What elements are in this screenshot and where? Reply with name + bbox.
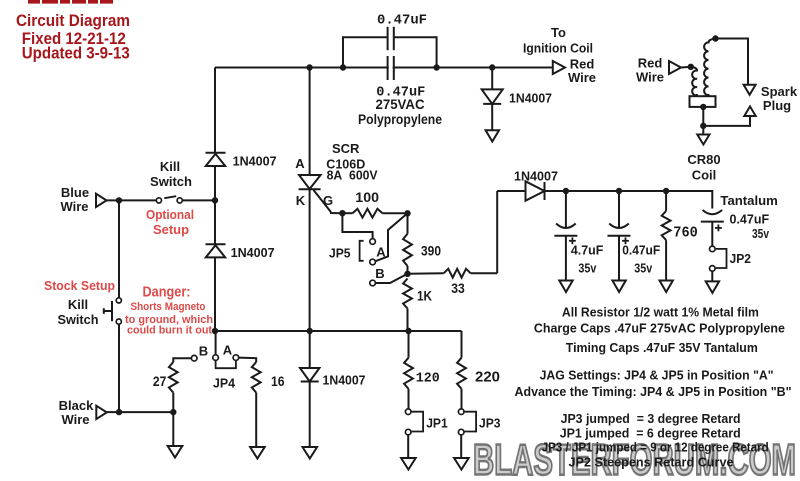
label C3 voltage: [578, 260, 597, 275]
jumper JP3 bracket: [465, 412, 477, 432]
jumper JP1 pin top: [405, 409, 411, 415]
wire D4 to ground: [309, 382, 311, 448]
wire spark plug return: [703, 116, 750, 126]
label JP5: [329, 245, 351, 260]
svg-text:Circuit Diagram: Circuit Diagram: [16, 11, 130, 30]
svg-text:1N4007: 1N4007: [514, 168, 558, 183]
label C1 0.47uF: [377, 13, 427, 29]
jumper JP5 pin common: [370, 239, 376, 245]
wire JP5 B to junction: [375, 274, 407, 283]
note line 1: [562, 305, 759, 320]
label 27: [153, 373, 167, 389]
diode D5 1N4007: [526, 181, 545, 200]
svg-text:Shorts Magneto: Shorts Magneto: [131, 301, 206, 313]
svg-text:100: 100: [355, 189, 379, 205]
svg-text:JP1 jumped = 6 degree Retard: JP1 jumped = 6 degree Retard: [560, 426, 741, 441]
resistor 100: [342, 209, 407, 218]
svg-text:16: 16: [271, 373, 285, 389]
node snubber diode tap: [489, 64, 495, 70]
svg-text:Kill: Kill: [68, 297, 88, 312]
svg-text:35v: 35v: [578, 260, 597, 275]
svg-text:0.47uF: 0.47uF: [622, 243, 660, 258]
label 120: [416, 371, 440, 387]
label D5 1N4007: [514, 168, 558, 183]
svg-text:To: To: [551, 25, 566, 40]
svg-text:1N4007: 1N4007: [231, 245, 275, 260]
label C2 voltage: [376, 97, 425, 112]
wire core to junction: [702, 107, 704, 126]
label Switch (stock): [58, 312, 99, 327]
svg-text:JP2: JP2: [730, 251, 752, 266]
label Wire (coil input): [636, 69, 664, 84]
note line 3: [566, 340, 758, 355]
note line 5: [515, 384, 792, 399]
svg-text:220: 220: [475, 369, 500, 386]
wire 33 up to charge bus: [496, 191, 498, 273]
svg-text:390: 390: [421, 242, 441, 258]
label Plug: [763, 98, 791, 113]
ground below coil: [697, 135, 709, 145]
ground below 760: [660, 281, 673, 293]
title line 3: [22, 43, 130, 62]
label B (JP4): [199, 343, 208, 358]
label 100: [355, 189, 379, 205]
label Switch (upper): [150, 174, 192, 189]
watermark BlasterForum.com: [473, 436, 796, 481]
label C106D: [326, 156, 365, 171]
plus C3: [569, 237, 576, 244]
wire coil to ground: [702, 126, 704, 135]
wire left drop from top bus to diode rail: [214, 68, 216, 154]
svg-text:JP4: JP4: [213, 376, 236, 391]
wire gap at C2: [389, 65, 393, 70]
label 390: [421, 242, 441, 258]
svg-text:Advance the Timing: JP4 & JP5: Advance the Timing: JP4 & JP5 in Positio…: [515, 384, 792, 399]
wire charge bus right: [545, 191, 713, 209]
wire bottom bus: [215, 330, 462, 332]
jumper JP4 pin B: [191, 355, 197, 361]
wire bus to C4: [618, 191, 620, 228]
svg-text:Wire: Wire: [60, 199, 88, 214]
wire primary to core box: [696, 94, 698, 96]
node bus at SCR cathode: [307, 328, 313, 334]
connector blue wire: [96, 194, 107, 207]
label danger text 1: [131, 301, 206, 313]
wire blue to switch: [107, 199, 157, 201]
wire top bus: [215, 67, 553, 69]
node bus at JP4 drop: [212, 328, 218, 334]
connector red wire to coil: [669, 61, 681, 74]
svg-text:Optional: Optional: [146, 207, 194, 222]
svg-text:Red: Red: [638, 55, 663, 70]
svg-text:All Resistor 1/2 watt 1% Metal: All Resistor 1/2 watt 1% Metal film: [562, 305, 759, 320]
inductor primary winding: [691, 67, 697, 96]
wire gate to JP5 common: [342, 213, 372, 238]
resistor 27: [169, 362, 178, 412]
wire connector to primary: [681, 66, 692, 69]
svg-text:760: 760: [673, 225, 698, 242]
svg-text:1N4007: 1N4007: [233, 154, 277, 169]
label C2 value: [376, 84, 425, 100]
capacitor C2 0.47uF 275VAC (on bus): [388, 56, 394, 80]
jumper JP1 bracket: [412, 412, 424, 432]
resistor 120: [404, 358, 413, 409]
label Wire: [568, 70, 596, 85]
label 220: [475, 369, 500, 386]
plus C5: [715, 225, 722, 232]
label Kill (upper): [160, 159, 180, 174]
title line 1: [16, 11, 130, 30]
label To: [551, 25, 566, 40]
svg-text:could burn it out.: could burn it out.: [127, 325, 215, 337]
label Wire (black): [61, 412, 89, 427]
wire C4 to ground: [618, 236, 620, 281]
node spark return junction: [700, 123, 706, 129]
label C5 voltage: [752, 226, 770, 241]
label Optional: [146, 207, 194, 222]
resistor 33: [408, 269, 498, 278]
connector black wire: [96, 406, 107, 419]
ground below C4: [612, 281, 625, 293]
jumper JP3 pin bottom: [458, 429, 464, 435]
label Blue: [61, 185, 89, 200]
label danger text 2: [125, 314, 213, 326]
wire bus to JP4 common: [215, 331, 217, 355]
ground below D4: [303, 447, 318, 459]
ground below JP1: [401, 458, 416, 470]
label C5 value: [730, 212, 770, 227]
label Spark: [761, 84, 798, 99]
svg-text:K: K: [296, 193, 306, 208]
svg-text:Wire: Wire: [636, 69, 664, 84]
svg-text:A: A: [295, 156, 305, 171]
svg-text:4.7uF: 4.7uF: [571, 243, 604, 258]
wire D3 anode: [491, 68, 493, 90]
jumper JP5 pin A: [370, 259, 376, 265]
label 1K: [417, 288, 432, 304]
node cap loop right: [433, 64, 439, 70]
ground below JP3: [454, 458, 469, 470]
label Coil: [692, 168, 717, 183]
transformer core box: [690, 96, 716, 107]
wire JP5 A to node: [375, 213, 407, 261]
resistor 16: [252, 362, 261, 447]
wire D1 to node: [214, 166, 216, 200]
label D4 1N4007: [323, 372, 366, 387]
svg-text:Stock Setup: Stock Setup: [44, 278, 115, 293]
node black wire at rail: [116, 409, 122, 415]
wire JP4 B to 27: [173, 358, 191, 362]
svg-text:0.47uF: 0.47uF: [377, 13, 427, 29]
wire JP3 to ground: [460, 435, 462, 458]
label Red: [570, 57, 595, 72]
svg-text:Danger:: Danger:: [143, 285, 191, 301]
node secondary top: [712, 35, 718, 41]
jumper JP2 pin top: [710, 246, 716, 252]
wire D2 to bottom bus: [214, 258, 216, 331]
label A (JP5): [376, 245, 386, 260]
capacitor C1 0.47uF (upper): [388, 27, 394, 50]
SCR gate lead: [314, 190, 343, 213]
wire node to D2: [214, 200, 216, 244]
svg-text:JP5: JP5: [329, 245, 351, 260]
svg-text:1N4007: 1N4007: [323, 372, 366, 387]
SCR U1 C106D: [299, 175, 321, 189]
label Stock Setup: [44, 278, 115, 293]
node cap loop left: [340, 64, 346, 70]
diode D3 1N4007: [482, 89, 503, 104]
label Red (coil input): [638, 55, 663, 70]
inductor secondary winding: [704, 39, 715, 96]
note line 2: [534, 321, 785, 336]
svg-text:Wire: Wire: [61, 412, 89, 427]
title line 2: [22, 29, 126, 48]
label C3 value: [571, 243, 604, 258]
svg-text:SCR: SCR: [332, 141, 360, 156]
label Kill (stock): [68, 297, 88, 312]
label D2 1N4007: [231, 245, 275, 260]
svg-text:0.47uF: 0.47uF: [730, 212, 770, 227]
node kill rail: [212, 197, 218, 203]
jumper JP4 pin A: [233, 355, 239, 361]
connector spark plug (top): [744, 85, 756, 95]
resistor 760: [662, 191, 671, 281]
wire charge bus left: [497, 190, 525, 192]
wire blue node down to push button: [118, 200, 120, 297]
svg-text:Black: Black: [59, 398, 94, 413]
jumper JP5 bracket: [360, 241, 364, 261]
node core box bottom: [700, 104, 706, 110]
svg-text:Timing Caps .47uF 35V Tantalum: Timing Caps .47uF 35V Tantalum: [566, 340, 758, 355]
jumper JP4 pin common: [213, 355, 219, 361]
wire bus corner to 220: [461, 331, 463, 358]
svg-text:Ignition Coil: Ignition Coil: [523, 41, 593, 56]
wire black wire line: [107, 411, 174, 413]
resistor 220: [457, 358, 466, 409]
jumper JP2 bracket: [716, 249, 727, 268]
wire D3 to ground: [491, 104, 493, 130]
label G (SCR gate): [323, 193, 333, 208]
wire SCR anode: [309, 68, 311, 176]
node gate: [339, 210, 345, 216]
node bus at C4: [616, 188, 622, 194]
node black wire at 27: [170, 409, 176, 415]
diode D1 1N4007: [206, 153, 226, 166]
diode D2 1N4007: [206, 244, 226, 257]
svg-text:B: B: [199, 343, 208, 358]
node blue wire: [116, 197, 122, 203]
wire SCR cathode to bus: [309, 189, 311, 331]
svg-text:120: 120: [416, 371, 440, 387]
svg-text:Kill: Kill: [160, 159, 180, 174]
jumper JP2 pin bottom: [710, 266, 716, 272]
jumper JP4 bracket: [216, 361, 236, 368]
ground below D3: [486, 130, 499, 141]
svg-text:35v: 35v: [634, 260, 653, 275]
note line 8: [542, 440, 769, 455]
label A (JP4): [223, 343, 233, 358]
label 760: [673, 225, 698, 242]
svg-text:Tantalum: Tantalum: [720, 193, 778, 208]
svg-text:A: A: [223, 343, 233, 358]
label C4 voltage: [634, 260, 653, 275]
diode D4 1N4007: [300, 368, 320, 382]
label JP3: [479, 415, 501, 430]
label Danger:: [143, 285, 191, 301]
label Black: [59, 398, 94, 413]
svg-text:Polypropylene: Polypropylene: [358, 112, 442, 127]
label D3 1N4007: [509, 91, 552, 106]
wire JP1 to ground: [407, 435, 409, 458]
wire capacitor loop: [343, 37, 437, 67]
label 33: [451, 280, 465, 296]
label SCR: [332, 141, 360, 156]
wire C5 to JP2: [711, 222, 713, 247]
note line 7: [560, 426, 741, 441]
svg-text:275VAC: 275VAC: [376, 97, 425, 112]
svg-text:Switch: Switch: [58, 312, 99, 327]
switch S2 kill (stock, push button): [104, 298, 122, 324]
jumper JP1 pin bottom: [405, 429, 411, 435]
svg-text:27: 27: [153, 373, 167, 389]
label K (SCR cathode): [296, 193, 306, 208]
label Ignition Coil: [523, 41, 593, 56]
cropped text sliver at top edge: [28, 0, 113, 4]
label Wire (blue): [60, 199, 88, 214]
ground below black wire: [168, 446, 183, 458]
label A (SCR anode): [295, 156, 305, 171]
connector to ignition coil: [553, 61, 565, 74]
note line 9: [569, 455, 734, 470]
wire bus to 120: [408, 331, 410, 358]
svg-text:35v: 35v: [752, 226, 770, 241]
svg-text:CR80: CR80: [687, 152, 720, 167]
connector spark plug (bottom): [744, 106, 755, 116]
capacitor C3 4.7uF 35v: [554, 224, 577, 236]
wire JP2 to ground: [711, 271, 713, 281]
note line 4: [540, 368, 774, 383]
node bus at 760: [663, 188, 669, 194]
svg-text:Spark: Spark: [761, 84, 798, 99]
svg-text:Plug: Plug: [763, 98, 791, 113]
label danger text 3: [127, 325, 215, 337]
resistor 390: [403, 213, 412, 273]
svg-text:G: G: [323, 193, 333, 208]
svg-text:33: 33: [451, 280, 465, 296]
svg-text:B: B: [375, 266, 384, 281]
svg-text:Switch: Switch: [150, 174, 192, 189]
svg-text:Wire: Wire: [568, 70, 596, 85]
node bus at C3: [563, 188, 569, 194]
svg-text:1N4007: 1N4007: [509, 91, 552, 106]
svg-text:Charge Caps .47uF 275vAC Polyp: Charge Caps .47uF 275vAC Polypropylene: [534, 321, 785, 336]
svg-text:JP3 / JP1 jumped = 9 or 12 deg: JP3 / JP1 jumped = 9 or 12 degree Retard: [542, 440, 769, 455]
wire secondary top: [716, 39, 749, 85]
jumper JP3 pin top: [458, 409, 464, 415]
svg-text:Updated 3-9-13: Updated 3-9-13: [22, 43, 130, 62]
label Setup (optional): [153, 222, 189, 237]
label Tantalum: [720, 193, 778, 208]
label 8A 600V: [327, 168, 378, 183]
wire 27 junction to ground: [172, 412, 174, 446]
ground below 16: [250, 447, 265, 459]
note line 6: [561, 411, 741, 426]
switch S1 kill (optional): [156, 196, 182, 203]
node primary top: [688, 64, 694, 70]
label 16: [271, 373, 285, 389]
wire secondary to core box: [708, 94, 710, 96]
label JP2: [730, 251, 752, 266]
svg-text:JP3: JP3: [479, 415, 501, 430]
svg-text:Coil: Coil: [692, 168, 717, 183]
svg-text:1K: 1K: [417, 288, 432, 304]
label C4 value: [622, 243, 660, 258]
wire push button to black wire: [118, 324, 120, 412]
node top-left of SCR: [306, 64, 312, 70]
node top of 390: [404, 210, 410, 216]
capacitor C4 0.47uF 35v: [608, 224, 631, 236]
jumper JP5 pin B: [370, 280, 376, 286]
node 390-1K junction: [404, 271, 410, 277]
svg-text:JP1: JP1: [426, 415, 448, 430]
wire JP4 A to 16: [239, 358, 257, 362]
node bus at 1K/120: [405, 328, 411, 334]
svg-text:Blue: Blue: [61, 185, 89, 200]
wire switch to diode rail: [182, 199, 215, 201]
label JP1: [426, 415, 448, 430]
label D1 1N4007: [233, 154, 277, 169]
wire C3 to ground: [565, 236, 567, 281]
label CR80: [687, 152, 720, 167]
label B (JP5): [375, 266, 384, 281]
svg-text:Setup: Setup: [153, 222, 189, 237]
svg-text:8A 600V: 8A 600V: [327, 168, 378, 183]
svg-text:JP2 Steepens Retard Curve: JP2 Steepens Retard Curve: [569, 455, 734, 470]
capacitor C5 tantalum: [701, 210, 724, 222]
ground below C3: [559, 281, 572, 293]
wire bus to D4: [309, 331, 311, 368]
svg-text:JAG Settings: JP4 & JP5 in Pos: JAG Settings: JP4 & JP5 in Position "A": [540, 368, 774, 383]
ground below JP2: [706, 281, 719, 293]
label C2 dielectric: [358, 112, 442, 127]
plus C4: [622, 237, 629, 244]
label JP4: [213, 376, 236, 391]
svg-text:JP3 jumped = 3 degree Retard: JP3 jumped = 3 degree Retard: [561, 411, 741, 426]
resistor 1K: [403, 279, 412, 332]
wire bus to C3: [565, 191, 567, 228]
